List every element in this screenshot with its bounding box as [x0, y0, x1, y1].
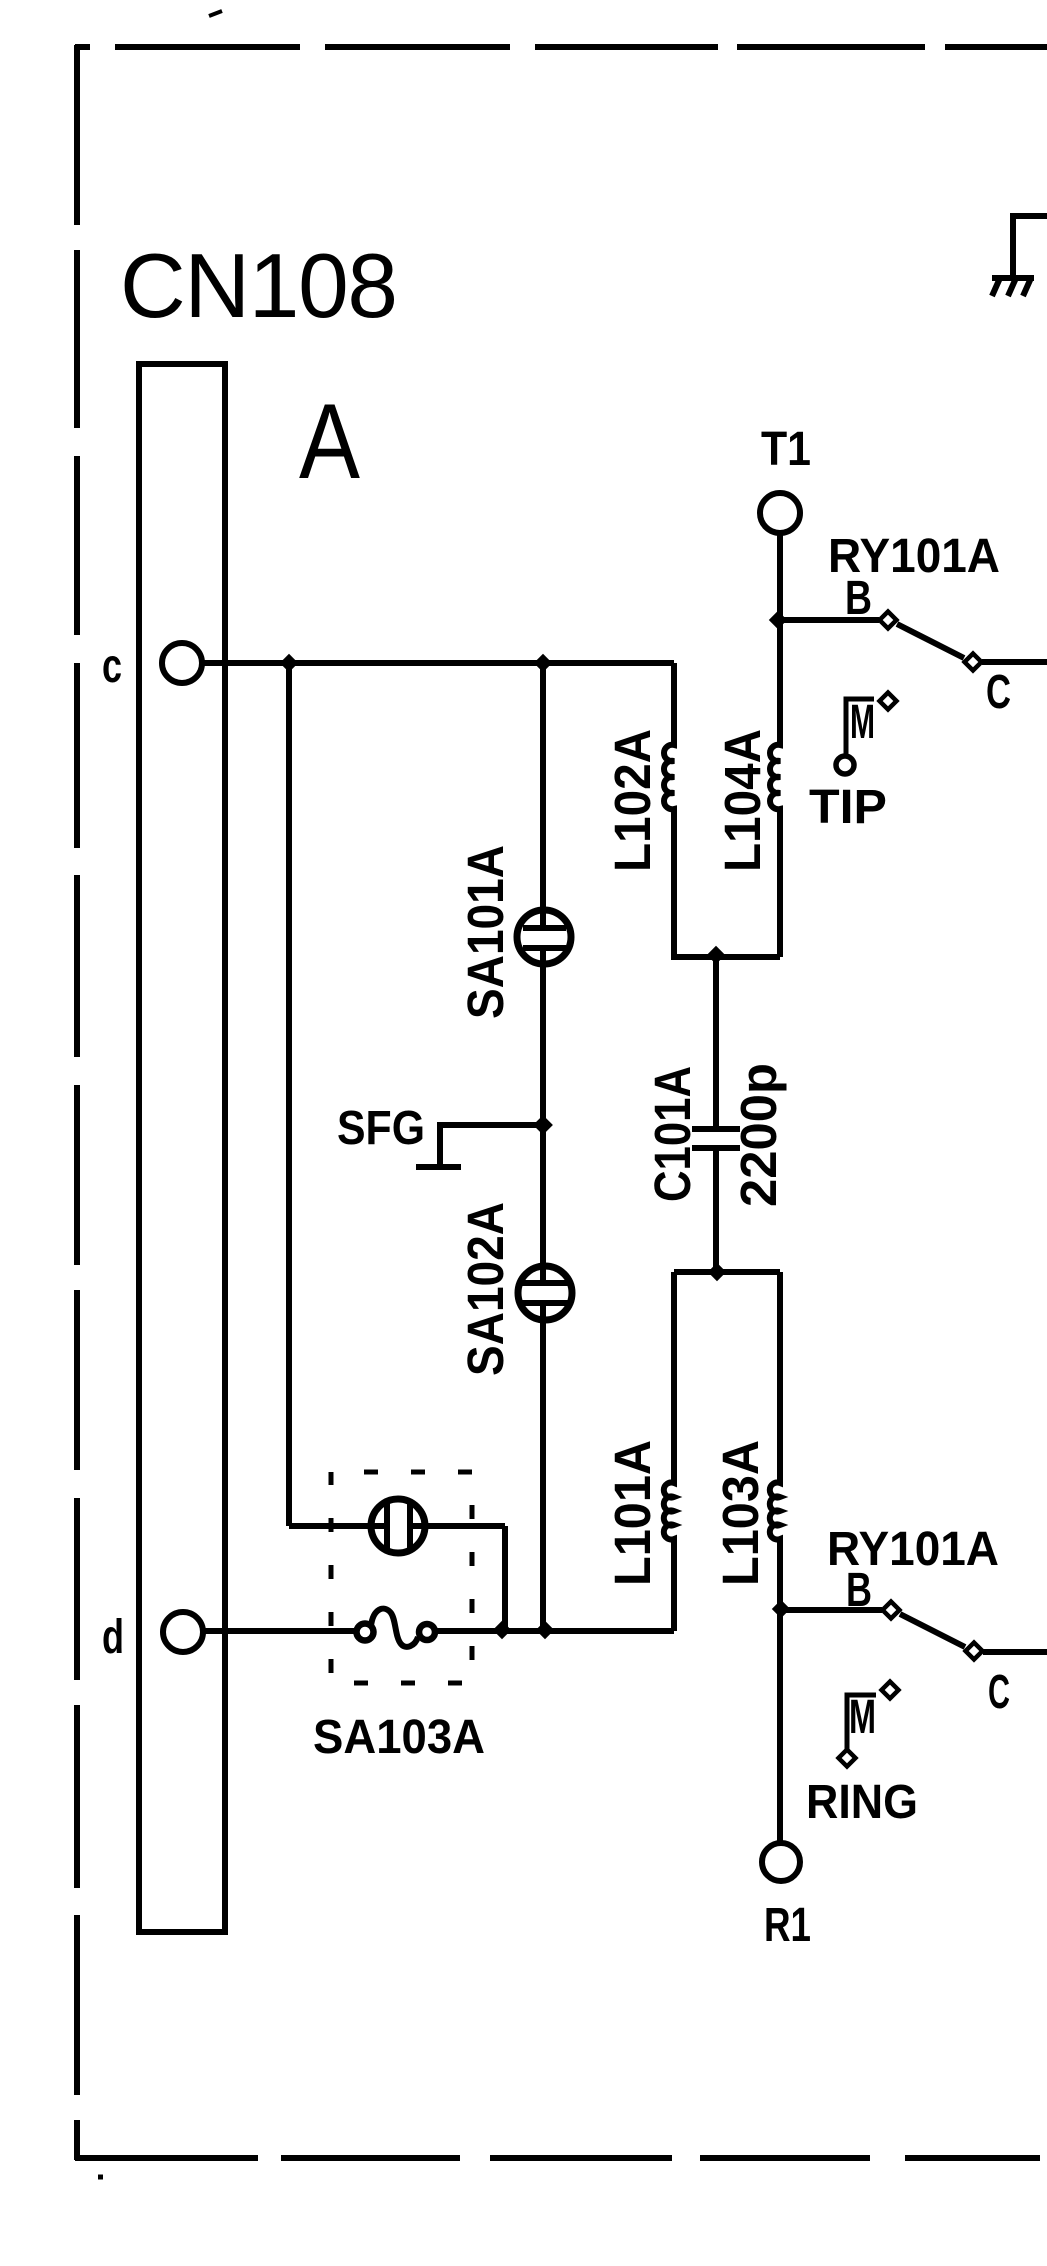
svg-text:RING: RING [806, 1776, 918, 1829]
svg-text:SFG: SFG [337, 1102, 425, 1155]
svg-text:B: B [846, 1564, 872, 1617]
svg-text:L101A: L101A [604, 1440, 661, 1586]
svg-text:M: M [849, 1691, 876, 1744]
svg-text:TIP: TIP [809, 781, 887, 834]
svg-text:A: A [299, 381, 361, 501]
svg-text:2200p: 2200p [730, 1063, 787, 1207]
svg-text:d: d [102, 1611, 124, 1664]
svg-text:SA101A: SA101A [457, 845, 514, 1019]
svg-text:C: C [986, 666, 1011, 719]
svg-text:L104A: L104A [714, 729, 771, 872]
svg-text:SA103A: SA103A [313, 1711, 485, 1764]
svg-text:C: C [988, 1666, 1010, 1719]
svg-text:M: M [850, 696, 875, 749]
svg-text:C101A: C101A [644, 1066, 701, 1202]
svg-text:R1: R1 [764, 1899, 811, 1952]
svg-text:CN108: CN108 [120, 236, 398, 337]
svg-text:L103A: L103A [712, 1440, 769, 1586]
svg-text:c: c [102, 640, 122, 693]
svg-text:L102A: L102A [604, 729, 661, 872]
svg-text:SA102A: SA102A [457, 1202, 514, 1376]
svg-text:B: B [845, 572, 872, 625]
svg-text:T1: T1 [761, 423, 811, 476]
